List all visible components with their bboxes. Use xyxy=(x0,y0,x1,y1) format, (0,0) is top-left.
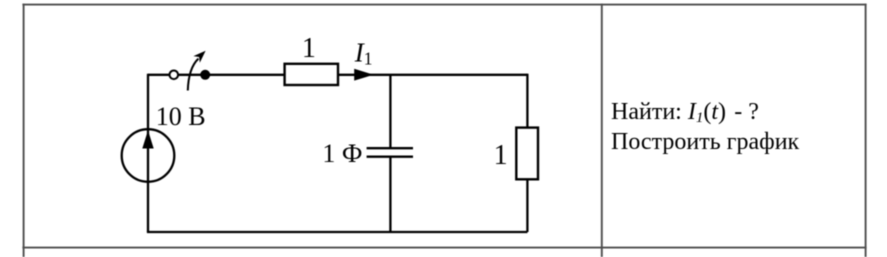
table right border xyxy=(865,4,867,257)
switch S1 open terminal circle xyxy=(170,71,179,80)
resistor R1 body xyxy=(285,64,338,85)
svg-text:1: 1 xyxy=(302,33,316,64)
wire switch to resistor R1 xyxy=(178,74,285,76)
svg-text:1 Ф: 1 Ф xyxy=(322,139,362,168)
switch S1 actuation arc xyxy=(188,59,199,91)
current source U1 circle xyxy=(122,129,175,182)
current arrow I1 xyxy=(354,69,373,81)
switch S1 arc arrowhead xyxy=(193,51,205,63)
wire right vertical lower (R2 to bottom) xyxy=(526,179,528,232)
capacitor C1 top plate xyxy=(367,147,413,149)
wire R1 to top-right corner xyxy=(338,74,527,76)
svg-text:Построить график: Построить график xyxy=(611,129,800,155)
svg-text:Найти: I1(t) - ?: Найти: I1(t) - ? xyxy=(611,99,759,126)
resistor R2 body xyxy=(516,128,538,180)
table left border xyxy=(23,4,25,257)
wire right vertical upper (to resistor R2) xyxy=(526,74,528,128)
capacitor C1 bottom plate xyxy=(367,156,413,158)
table top border xyxy=(22,4,866,6)
wire capacitor branch lower xyxy=(389,157,391,232)
table column divider xyxy=(601,4,603,257)
svg-text:10 В: 10 В xyxy=(156,102,206,131)
switch S1 closed terminal dot xyxy=(200,70,210,80)
wire capacitor branch upper xyxy=(389,75,391,148)
svg-text:1: 1 xyxy=(494,140,508,171)
wire top-left corner to switch terminal xyxy=(148,74,170,76)
wire left vertical (through source) xyxy=(147,74,149,232)
wire bottom xyxy=(147,231,528,233)
current source U1 arrowhead xyxy=(142,130,153,148)
table row divider xyxy=(22,247,866,249)
